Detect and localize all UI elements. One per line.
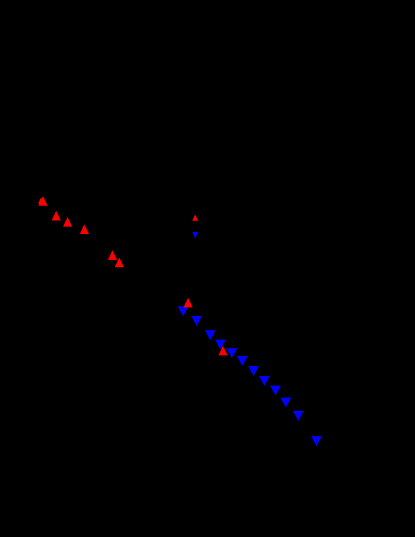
legend marker red (up triangle)	[192, 214, 198, 220]
blue series marker B8 (down triangle)	[259, 376, 270, 386]
blue series marker B10 (down triangle)	[281, 398, 292, 408]
red series marker R1 (up triangle)	[38, 196, 47, 206]
blue series marker B3 (down triangle)	[205, 330, 216, 340]
blue series marker B6 (down triangle)	[237, 356, 248, 366]
red series marker R2 (up triangle)	[52, 211, 61, 221]
blue series marker B12 (down triangle)	[311, 436, 322, 446]
blue series marker B2 (down triangle)	[191, 316, 202, 326]
red series marker R7 (up triangle)	[184, 298, 193, 308]
blue series marker B11 (down triangle)	[293, 411, 304, 421]
blue series marker B7 (down triangle)	[248, 366, 259, 376]
blue series marker B9 (down triangle)	[270, 386, 281, 396]
legend marker blue (down triangle)	[192, 232, 198, 239]
red series marker R8 (up triangle)	[218, 346, 227, 356]
red series marker R5 (up triangle)	[108, 250, 117, 260]
red series marker R6 (up triangle)	[115, 258, 124, 268]
blue series marker B4 (down triangle)	[215, 340, 226, 350]
red series marker R4 (up triangle)	[80, 224, 89, 234]
red series marker R1b (small, behind R1)	[38, 197, 44, 203]
blue series marker B5 (down triangle)	[227, 348, 238, 358]
blue series marker B1 (down triangle)	[178, 306, 189, 316]
red series marker R3 (up triangle)	[63, 217, 72, 227]
